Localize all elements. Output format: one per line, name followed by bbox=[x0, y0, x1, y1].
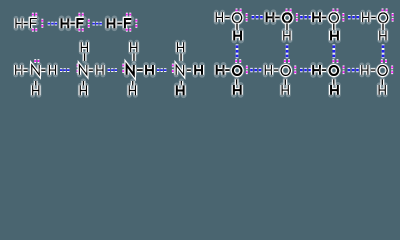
water molecule 7 (bottom row) H bbox=[313, 65, 320, 75]
water molecule 7 (bottom row) O bbox=[330, 66, 338, 75]
water molecule 2 (top row) O lone pair top-left bbox=[286, 8, 288, 12]
F3 lone pair dot right-lower bbox=[135, 24, 137, 28]
NH3-4 top H bbox=[177, 42, 183, 52]
water molecule 7 (bottom row) O lone pair top-right bbox=[337, 59, 339, 63]
hydrogen bond NH3-3 to NH3-4 bbox=[157, 68, 166, 72]
water molecule 7 (bottom row) O lone pair right-lower bbox=[343, 70, 345, 74]
water molecule 7 (bottom row) down O-H bond bbox=[331, 79, 336, 85]
F2 lone pair dot top-left bbox=[78, 13, 80, 17]
hydrogen bond water 1 to water 2 bbox=[252, 15, 263, 19]
hydrogen H of HF molecule 2 (bold) bbox=[62, 18, 69, 28]
vertical hydrogen bond below water 3 bbox=[333, 47, 336, 56]
H-F single bond of HF 2 bbox=[70, 21, 75, 27]
water molecule 8 (bottom row) down O-H bond bbox=[380, 79, 385, 85]
water molecule 7 (bottom row) bottom H bbox=[331, 85, 338, 95]
NH3-3 right H (bold) bbox=[146, 65, 153, 75]
water molecule 7 (bottom row) O lone pair top-left bbox=[332, 59, 334, 63]
water molecule 4 (top row) H bbox=[363, 12, 369, 22]
NH3-4 lone pair dot lower bbox=[172, 69, 174, 73]
NH3-3 lone pair dot lower bbox=[122, 69, 124, 73]
NH3-3 bottom H bbox=[129, 85, 135, 95]
NH3-1 left H bbox=[16, 65, 22, 75]
NH3-1 right H bbox=[49, 65, 55, 75]
fluorine F of HF molecule 1 bbox=[30, 19, 36, 29]
water molecule 3 (top row) down O-H bond bbox=[331, 24, 336, 30]
water molecule 6 (bottom row) O-H bond bbox=[274, 67, 278, 72]
water molecule 5 (bottom row) down O-H bond bbox=[234, 79, 239, 85]
water molecule 3 (top row) hanging H bbox=[331, 31, 338, 41]
F3 lone pair dot right-upper bbox=[135, 19, 137, 23]
water molecule 6 (bottom row) bottom H bbox=[282, 85, 288, 95]
F1 lone pair dot right-upper bbox=[41, 19, 43, 23]
F2 lone pair dot bottom-right bbox=[82, 28, 84, 32]
NH3-2 top H bbox=[81, 42, 87, 52]
F1 lone pair dot right-lower bbox=[41, 24, 43, 28]
NH3-2 up N-H bond bbox=[82, 54, 87, 61]
NH3-3 N (bold) bbox=[127, 65, 134, 75]
F3 lone pair dot bottom-right bbox=[129, 28, 131, 32]
NH3-1 lone pair dot left bbox=[34, 59, 36, 63]
water molecule 3 (top row) O lone pair top-right bbox=[337, 8, 339, 12]
NH3-1 bottom H bbox=[33, 85, 39, 95]
water molecule 1 (top row) down O-H bond bbox=[234, 24, 239, 30]
hydrogen bond NH3-2 to NH3-3 bbox=[108, 68, 117, 72]
water molecule 2 (top row) H bbox=[267, 12, 274, 22]
NH3-2 lone pair dot lower bbox=[77, 69, 79, 73]
F3 lone pair dot top-right bbox=[129, 13, 131, 17]
water molecule 4 (top row) O lone pair right-lower bbox=[392, 18, 394, 22]
water molecule 1 (top row) O lone pair top-left bbox=[236, 8, 238, 12]
water molecule 2 (top row) O lone pair top-right bbox=[290, 8, 292, 12]
NH3-4 down N-H bond bbox=[179, 81, 184, 85]
NH3-1 down N-H bond bbox=[33, 81, 38, 85]
water molecule 2 (top row) O-H bond bbox=[275, 15, 279, 21]
water molecule 5 (bottom row) O-H bond bbox=[225, 67, 229, 73]
water molecule 6 (bottom row) O lone pair top-left bbox=[284, 59, 286, 63]
water molecule 6 (bottom row) H bbox=[265, 65, 271, 75]
water molecule 3 (top row) O lone pair top-left bbox=[332, 8, 334, 12]
F2 lone pair dot right-lower bbox=[88, 24, 90, 28]
water molecule 3 (top row) O lone pair right-lower bbox=[342, 18, 344, 22]
water molecule 3 (top row) O lone pair right-upper bbox=[342, 13, 344, 17]
water molecule 1 (top row) hanging H bbox=[234, 31, 241, 41]
water molecule 4 (top row) O lone pair top-left bbox=[382, 8, 384, 12]
water molecule 1 (top row) O bbox=[233, 13, 242, 23]
NH3-1 lone pair dot right bbox=[38, 59, 40, 63]
water molecule 4 (top row) down O-H bond bbox=[380, 24, 385, 30]
water molecule 8 (bottom row) O lone pair top-right bbox=[385, 59, 387, 63]
water molecule 8 (bottom row) bottom H bbox=[379, 85, 385, 95]
water molecule 6 (bottom row) O bbox=[281, 66, 290, 76]
vertical hydrogen bond below water 4 bbox=[382, 47, 385, 56]
NH3-3 down N-H bond bbox=[130, 81, 135, 85]
hydrogen bond water 7 to water 8 bbox=[348, 68, 359, 72]
fluorine F of HF molecule 3 (bold) bbox=[125, 19, 131, 28]
water molecule 1 (top row) O lone pair right-lower bbox=[246, 18, 248, 22]
F3 lone pair dot top-left bbox=[126, 13, 128, 17]
NH3-2 N bbox=[79, 65, 86, 75]
NH3-3 top H bbox=[131, 42, 137, 52]
water molecule 4 (top row) O bbox=[379, 13, 388, 23]
water molecule 8 (bottom row) H bbox=[362, 65, 368, 75]
NH3-4 up N-H bond bbox=[178, 54, 183, 61]
NH3-1 left N-H bond bbox=[24, 67, 28, 72]
NH3-1 N bbox=[32, 65, 39, 75]
hydrogen bond HF2 to HF3 bbox=[93, 22, 102, 26]
NH3-2 right N-H bond bbox=[89, 67, 93, 72]
water molecule 1 (top row) O-H bond bbox=[225, 15, 229, 20]
water molecule 7 (bottom row) O-H bond bbox=[322, 67, 326, 73]
F2 lone pair dot bottom-left bbox=[78, 28, 80, 32]
water molecule 6 (bottom row) down O-H bond bbox=[283, 79, 288, 85]
NH3-3 lone pair dot upper bbox=[122, 64, 124, 68]
water molecule 2 (top row) O lone pair right-lower bbox=[296, 18, 298, 22]
NH3-3 up N-H bond bbox=[131, 54, 136, 61]
H-F single bond of HF 1 bbox=[24, 21, 28, 26]
water molecule 3 (top row) H bbox=[313, 12, 320, 22]
NH3-4 bottom H (bold) bbox=[177, 85, 184, 95]
water molecule 1 (top row) O lone pair top-right bbox=[240, 8, 242, 12]
NH3-2 lone pair dot upper bbox=[77, 64, 79, 68]
F1 lone pair dot top-right bbox=[35, 13, 37, 17]
hydrogen bond water 6 to water 7 bbox=[300, 68, 311, 72]
water molecule 3 (top row) O bbox=[329, 13, 338, 23]
hydrogen bond NH3-1 to NH3-2 bbox=[60, 68, 69, 72]
fluorine F of HF molecule 2 (bold) bbox=[77, 19, 83, 28]
water molecule 6 (bottom row) O lone pair top-right bbox=[288, 59, 290, 63]
F2 lone pair dot right-upper bbox=[88, 19, 90, 23]
water molecule 2 (top row) O lone pair right-upper bbox=[296, 13, 298, 17]
F3 lone pair dot bottom-left bbox=[126, 28, 128, 32]
water molecule 5 (bottom row) H bbox=[217, 65, 224, 75]
water molecule 2 (top row) O bbox=[283, 13, 292, 22]
hydrogen bond water 2 to water 3 bbox=[300, 15, 311, 19]
water molecule 5 (bottom row) O lone pair right-lower bbox=[246, 70, 248, 74]
hydrogen H of HF molecule 1 bbox=[16, 18, 22, 28]
NH3-4 right H (bold) bbox=[195, 65, 202, 75]
NH3-2 down N-H bond bbox=[81, 81, 86, 85]
NH3-2 bottom H bbox=[80, 85, 86, 95]
water molecule 6 (bottom row) O lone pair right-upper bbox=[294, 65, 296, 69]
F1 lone pair dot bottom-right bbox=[35, 28, 37, 32]
F1 lone pair dot top-left bbox=[32, 13, 34, 17]
water molecule 4 (top row) hanging H bbox=[380, 31, 386, 41]
water molecule 7 (bottom row) O lone pair right-upper bbox=[343, 65, 345, 69]
water molecule 5 (bottom row) O lone pair top-left bbox=[235, 59, 237, 63]
F2 lone pair dot top-right bbox=[82, 13, 84, 17]
water molecule 6 (bottom row) O lone pair right-lower bbox=[294, 70, 296, 74]
water molecule 5 (bottom row) O bbox=[233, 66, 241, 75]
vertical hydrogen bond below water 2 bbox=[286, 47, 289, 56]
water molecule 8 (bottom row) O-H bond bbox=[371, 67, 375, 72]
NH3-3 right N-H bond bbox=[137, 67, 143, 73]
water molecule 8 (bottom row) O lone pair right-upper bbox=[391, 65, 393, 69]
water molecule 4 (top row) O lone pair right-upper bbox=[392, 13, 394, 17]
NH3-4 lone pair dot upper bbox=[172, 64, 174, 68]
water molecule 4 (top row) O-H bond bbox=[371, 15, 375, 20]
vertical hydrogen bond below water 1 bbox=[236, 47, 239, 56]
NH3-4 N bbox=[176, 65, 183, 75]
hydrogen H of HF molecule 3 (bold) bbox=[108, 18, 115, 28]
water molecule 1 (top row) O lone pair right-upper bbox=[246, 13, 248, 17]
water molecule 5 (bottom row) O lone pair right-upper bbox=[246, 65, 248, 69]
NH3-1 right N-H bond bbox=[41, 67, 45, 72]
hydrogen bond water 3 to water 4 bbox=[348, 15, 359, 19]
water molecule 5 (bottom row) O lone pair top-right bbox=[239, 59, 241, 63]
NH3-2 right H bbox=[97, 65, 103, 75]
F1 lone pair dot bottom-left bbox=[32, 28, 34, 32]
water molecule 3 (top row) O-H bond bbox=[322, 15, 326, 21]
hydrogen bond water 5 to water 6 bbox=[250, 68, 261, 72]
hydrogen bond HF1 to HF2 bbox=[48, 22, 57, 26]
H-F single bond of HF 3 bbox=[117, 21, 122, 27]
water molecule 8 (bottom row) O lone pair top-left bbox=[381, 59, 383, 63]
water molecule 5 (bottom row) bottom H bbox=[234, 85, 241, 95]
water molecule 4 (top row) O lone pair top-right bbox=[386, 8, 388, 12]
water molecule 1 (top row) H bbox=[216, 12, 222, 22]
water molecule 8 (bottom row) O bbox=[378, 66, 387, 76]
water molecule 2 (top row) hanging H bbox=[284, 31, 290, 41]
NH3-4 right N-H bond bbox=[187, 67, 191, 72]
water molecule 8 (bottom row) O lone pair right-lower bbox=[391, 70, 393, 74]
water molecule 2 (top row) down O-H bond bbox=[284, 24, 289, 30]
